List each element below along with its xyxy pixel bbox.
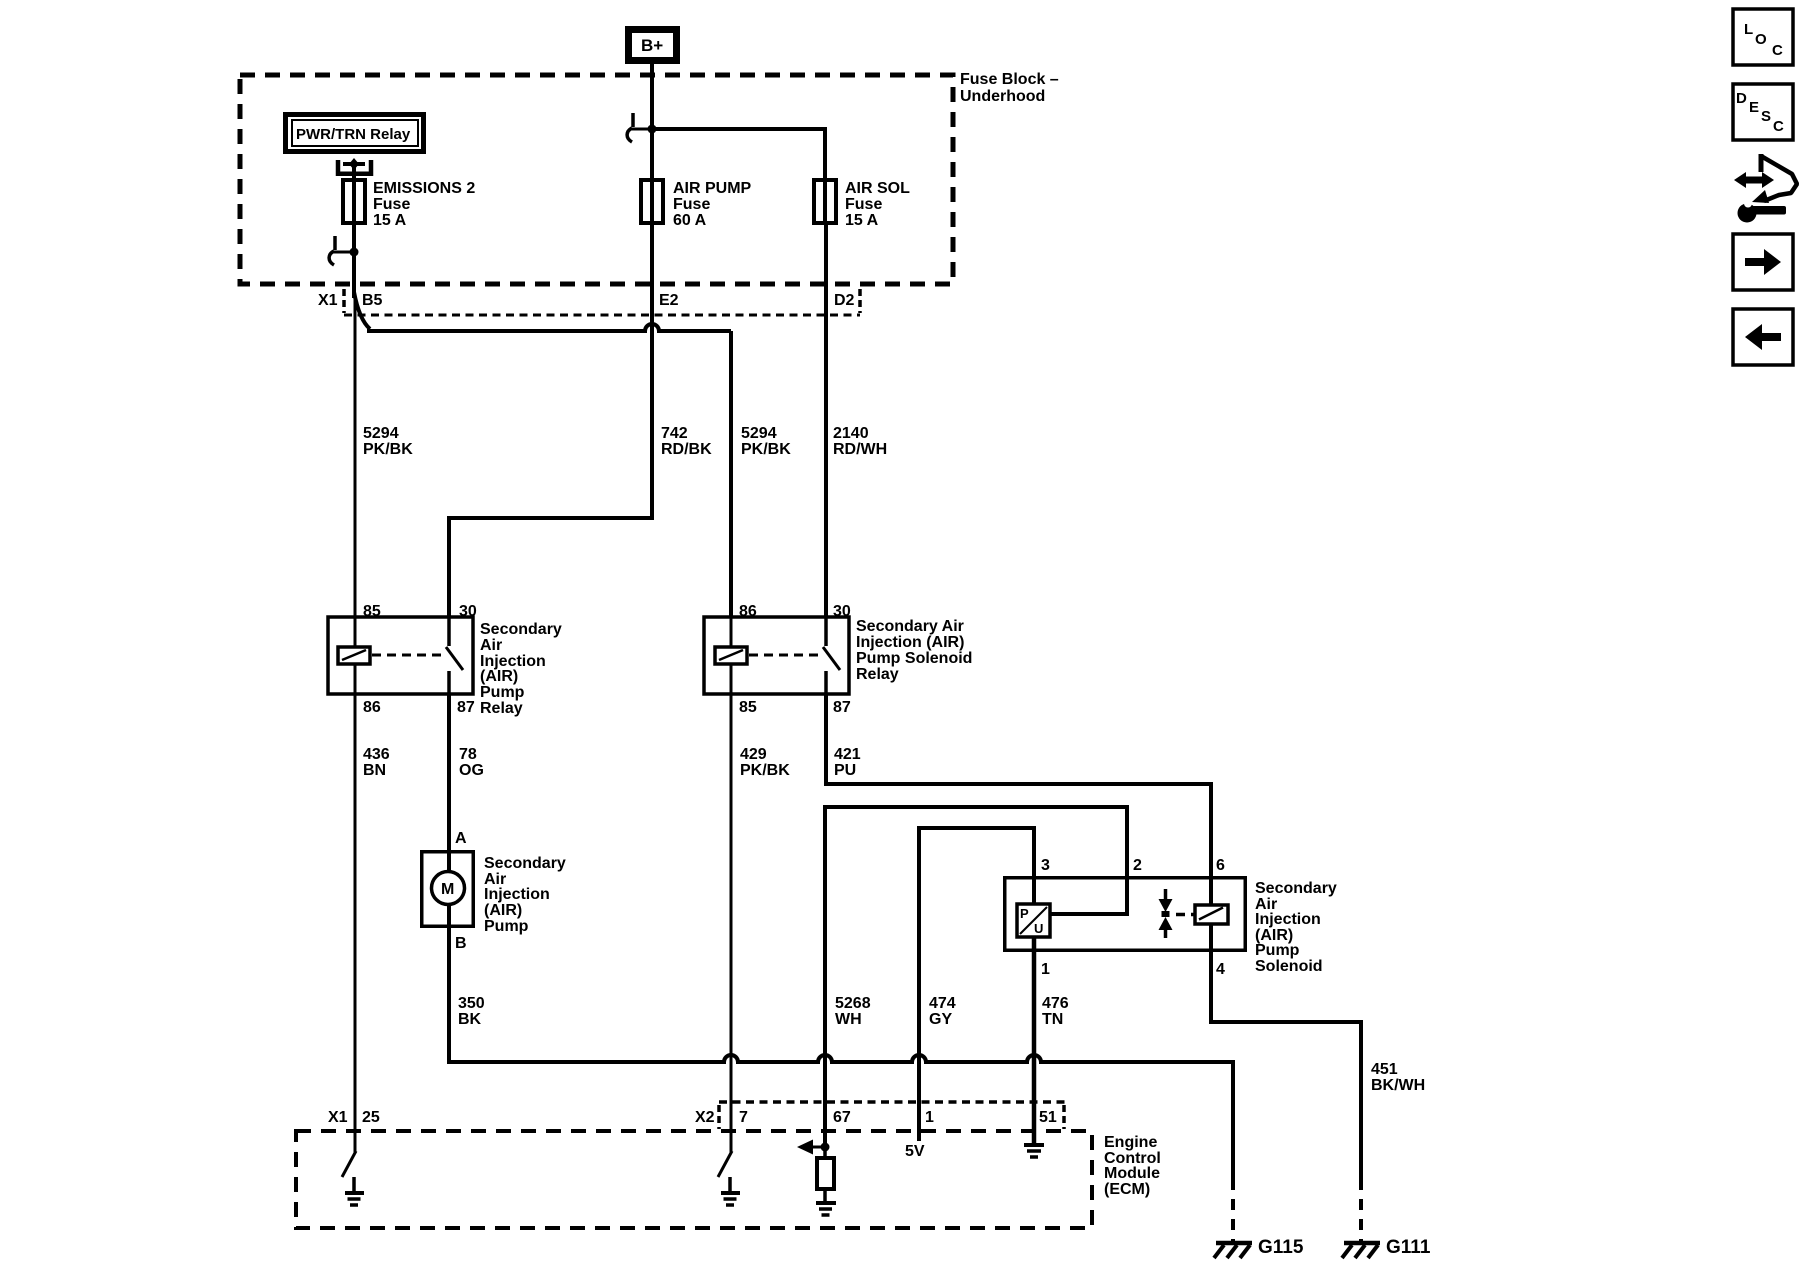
svg-text:86: 86: [363, 699, 381, 716]
relay U1 coil: [354, 617, 357, 647]
svg-text:1: 1: [925, 1109, 934, 1126]
svg-text:Pump Solenoid: Pump Solenoid: [856, 650, 972, 667]
svg-text:30: 30: [459, 603, 477, 620]
ECM pin 67 signal arrow: [811, 1146, 823, 1149]
svg-text:742: 742: [661, 425, 688, 442]
svg-text:EMISSIONS 2: EMISSIONS 2: [373, 180, 475, 197]
wire 451 BK/WH solenoid pin 4 to G111: [1211, 952, 1361, 1179]
icon LOC box: [1733, 9, 1793, 65]
ECM pocket separator left (X2|7): [717, 1105, 721, 1129]
svg-text:451: 451: [1371, 1061, 1398, 1078]
svg-text:Pump: Pump: [1255, 942, 1300, 959]
svg-text:Pump: Pump: [480, 684, 525, 701]
solenoid coil: [1209, 876, 1213, 905]
motor M symbol: [447, 850, 451, 872]
relay U2 coil-switch dashed link: [749, 654, 818, 657]
wire bracket to EMISSIONS 2 fuse: [352, 164, 356, 180]
svg-text:474: 474: [929, 995, 956, 1012]
svg-text:P: P: [1020, 906, 1029, 921]
svg-text:(AIR): (AIR): [484, 902, 522, 919]
icon double arrow with wrench: [1734, 172, 1774, 188]
node B+ battery box: [629, 30, 677, 61]
wire 429 PK/BK relay2 85 to ECM X2-7: [730, 694, 733, 1153]
icon back arrow box: [1733, 309, 1793, 365]
svg-text:4: 4: [1216, 961, 1225, 978]
svg-text:A: A: [455, 830, 467, 847]
svg-text:Engine: Engine: [1104, 1134, 1157, 1151]
relay U1 coil-switch dashed link: [372, 654, 441, 657]
relay U2 coil: [730, 617, 733, 647]
svg-text:RD/BK: RD/BK: [661, 441, 712, 458]
svg-text:G115: G115: [1258, 1237, 1304, 1258]
fuse block pocket separator right (D2): [858, 289, 862, 313]
wire 476 TN solenoid pin 1 to ECM pin 51: [1032, 937, 1037, 1143]
ground G115 symbol: [1216, 1241, 1252, 1246]
ground G111 symbol: [1344, 1241, 1380, 1246]
svg-text:Fuse: Fuse: [673, 196, 710, 213]
svg-text:(ECM): (ECM): [1104, 1181, 1150, 1198]
svg-text:5294: 5294: [363, 425, 399, 442]
svg-text:87: 87: [457, 699, 475, 716]
svg-text:15 A: 15 A: [373, 212, 407, 229]
relay U1 switch: [447, 617, 451, 646]
svg-text:PK/BK: PK/BK: [363, 441, 413, 458]
svg-text:86: 86: [739, 603, 757, 620]
svg-text:5V: 5V: [905, 1143, 925, 1160]
svg-text:78: 78: [459, 746, 477, 763]
icon forward arrow box: [1733, 234, 1793, 290]
svg-text:RD/WH: RD/WH: [833, 441, 887, 458]
solenoid P/U pressure box: [1032, 876, 1036, 904]
fuse EMISSIONS 2 15A: [343, 180, 365, 223]
svg-text:Relay: Relay: [480, 700, 523, 717]
wire EMISSIONS 2 fuse down through X1 B5: [352, 223, 356, 298]
svg-text:D: D: [1736, 90, 1747, 107]
svg-text:429: 429: [740, 746, 767, 763]
svg-text:Injection (AIR): Injection (AIR): [856, 634, 964, 651]
svg-text:D2: D2: [834, 292, 855, 309]
svg-text:2: 2: [1133, 857, 1142, 874]
wire 78 OG relay1 87 to AIR pump A: [447, 694, 451, 871]
svg-text:421: 421: [834, 746, 861, 763]
fuse block pocket separator left (X1|B5): [342, 289, 346, 313]
solenoid diode-coil dashed link: [1176, 913, 1195, 917]
svg-text:85: 85: [363, 603, 381, 620]
svg-text:L: L: [1744, 21, 1753, 38]
splice junction dot below EMISSIONS 2 fuse: [350, 248, 359, 257]
svg-text:PK/BK: PK/BK: [740, 762, 790, 779]
splice symbol (tick and hook): [630, 128, 648, 131]
wire 5294 PK/BK down from B5 to relay 1 pin 85: [354, 296, 357, 617]
svg-text:BK/WH: BK/WH: [1371, 1077, 1425, 1094]
svg-text:X1: X1: [318, 292, 338, 309]
ECM pin 51 ground: [1024, 1143, 1044, 1147]
svg-text:Pump: Pump: [484, 918, 529, 935]
ground G111 dashed lead: [1359, 1179, 1363, 1242]
wire 350 BK pump B to ground run with hops: [449, 928, 1233, 1179]
svg-text:BK: BK: [458, 1011, 482, 1028]
fuse AIR PUMP 60A: [641, 180, 663, 223]
wire branch to AIR SOL fuse: [652, 129, 825, 180]
svg-text:S: S: [1761, 108, 1771, 125]
svg-text:WH: WH: [835, 1011, 862, 1028]
svg-text:51: 51: [1039, 1109, 1057, 1126]
wire 5294 PK/BK branch curve from B5 to horizontal run: [354, 292, 370, 329]
svg-text:2140: 2140: [833, 425, 869, 442]
svg-text:Secondary Air: Secondary Air: [856, 618, 964, 635]
PWR/TRN Relay box: [286, 115, 424, 152]
splice junction dot on B+ feed: [648, 125, 657, 134]
svg-text:Relay: Relay: [856, 666, 899, 683]
svg-text:476: 476: [1042, 995, 1069, 1012]
svg-text:25: 25: [362, 1109, 380, 1126]
svg-text:Secondary: Secondary: [1255, 880, 1337, 897]
svg-text:67: 67: [833, 1109, 851, 1126]
wire 5294 PK/BK down to relay 2 pin 86: [729, 331, 733, 617]
svg-text:(AIR): (AIR): [480, 668, 518, 685]
relay output bracket symbol: [338, 160, 371, 174]
solenoid box: [1005, 878, 1246, 951]
splice symbol (tick and hook): [332, 251, 350, 254]
svg-text:C: C: [1772, 42, 1783, 59]
svg-text:85: 85: [739, 699, 757, 716]
ECM X1-25 internal switch and ground: [342, 1151, 356, 1177]
wire 474 GY ECM pin1 up to solenoid pin 3: [919, 828, 1034, 1141]
ECM pin 67 ground: [816, 1201, 836, 1205]
svg-text:Fuse: Fuse: [373, 196, 410, 213]
ECM pin 67 internal resistor: [823, 1147, 827, 1158]
svg-text:OG: OG: [459, 762, 484, 779]
svg-text:Fuse: Fuse: [845, 196, 882, 213]
svg-text:O: O: [1755, 31, 1767, 48]
svg-text:B: B: [455, 935, 467, 952]
wire 2140 RD/WH from D2 to relay 2 pin 30: [824, 223, 828, 617]
svg-text:Injection: Injection: [1255, 911, 1321, 928]
wire 742 RD/BK from E2 to relay 1 pin 30: [449, 223, 652, 617]
svg-text:Underhood: Underhood: [960, 88, 1045, 105]
fuse block connector pocket dotted line: [344, 314, 860, 317]
svg-text:AIR PUMP: AIR PUMP: [673, 180, 752, 197]
svg-text:U: U: [1034, 921, 1043, 936]
relay U2 AIR pump solenoid relay box: [704, 617, 849, 694]
svg-text:Secondary: Secondary: [484, 855, 566, 872]
wire B+ down to AIR PUMP fuse: [650, 64, 654, 180]
ECM X2-7 internal switch and ground: [718, 1151, 732, 1177]
svg-text:B5: B5: [362, 292, 383, 309]
svg-text:3: 3: [1041, 857, 1050, 874]
svg-text:PWR/TRN Relay: PWR/TRN Relay: [296, 126, 411, 143]
ECM pin 67 junction dot: [821, 1143, 830, 1152]
svg-text:Injection: Injection: [484, 886, 550, 903]
svg-text:E2: E2: [659, 292, 679, 309]
icon DESC box: [1733, 84, 1793, 140]
svg-text:E: E: [1749, 99, 1759, 116]
svg-text:436: 436: [363, 746, 390, 763]
svg-text:87: 87: [833, 699, 851, 716]
svg-text:5294: 5294: [741, 425, 777, 442]
svg-text:Air: Air: [480, 637, 502, 654]
ECM pocket separator right (51): [1062, 1105, 1066, 1129]
svg-text:6: 6: [1216, 857, 1225, 874]
svg-text:Fuse Block –: Fuse Block –: [960, 71, 1059, 88]
svg-text:BN: BN: [363, 762, 386, 779]
relay U2 switch: [824, 617, 828, 646]
fuse AIR SOL 15A: [814, 180, 836, 223]
motor M AIR pump box: [422, 852, 474, 927]
svg-text:350: 350: [458, 995, 485, 1012]
svg-text:PK/BK: PK/BK: [741, 441, 791, 458]
svg-text:15 A: 15 A: [845, 212, 879, 229]
svg-text:PU: PU: [834, 762, 856, 779]
ECM X2 connector pocket dotted line: [719, 1100, 1066, 1104]
svg-text:AIR SOL: AIR SOL: [845, 180, 910, 197]
svg-text:TN: TN: [1042, 1011, 1063, 1028]
svg-text:Module: Module: [1104, 1165, 1160, 1182]
relay U1 AIR pump relay box: [328, 617, 473, 694]
svg-text:M: M: [441, 881, 454, 898]
wire 436 BN relay1 86 to ECM X1-25: [354, 694, 357, 1153]
svg-text:Secondary: Secondary: [480, 621, 562, 638]
fuse block underhood dashed box: [240, 75, 953, 284]
solenoid pin 2 internal wire to P/U: [1050, 876, 1127, 914]
svg-text:30: 30: [833, 603, 851, 620]
svg-text:7: 7: [739, 1109, 748, 1126]
svg-text:5268: 5268: [835, 995, 871, 1012]
svg-text:X1: X1: [328, 1109, 348, 1126]
svg-text:C: C: [1773, 118, 1784, 135]
svg-text:X2: X2: [695, 1109, 715, 1126]
svg-text:B+: B+: [641, 36, 663, 55]
wire 5268 WH ECM pin67 up to solenoid pin 2: [825, 807, 1127, 1147]
svg-text:60 A: 60 A: [673, 212, 707, 229]
svg-text:1: 1: [1041, 961, 1050, 978]
svg-text:Solenoid: Solenoid: [1255, 958, 1323, 975]
wire 5294 PK/BK horizontal run with hop over AIR PUMP feed: [367, 324, 731, 331]
svg-text:GY: GY: [929, 1011, 952, 1028]
ground G115 dashed lead: [1231, 1179, 1235, 1242]
wire 421 PU relay2 87 to solenoid pin 6: [826, 694, 1211, 876]
ECM dashed box: [296, 1131, 1092, 1228]
solenoid suppression diodes: [1164, 889, 1168, 900]
svg-text:G111: G111: [1386, 1237, 1431, 1258]
